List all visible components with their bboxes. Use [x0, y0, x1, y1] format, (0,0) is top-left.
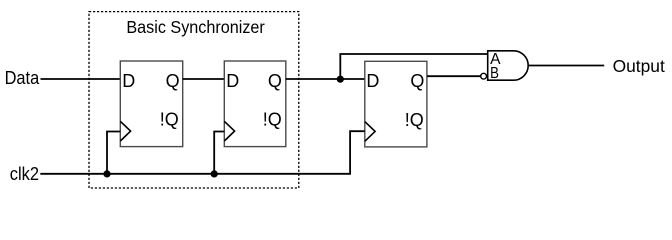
wire: FF1.Q to FF2.D [183, 78, 225, 80]
svg-text:D: D [366, 71, 379, 91]
D flip-flop U3 (third) [365, 61, 427, 147]
wire: Data to FF1.D [41, 78, 121, 80]
junction node on FF2.Q wire [337, 76, 344, 83]
svg-text:Data: Data [5, 68, 40, 88]
wire: clk2 up to FF1 clock [107, 132, 120, 174]
svg-text:D: D [226, 71, 239, 91]
inverter bubble on AND gate input B [481, 73, 487, 79]
wire: FF3.Q to AND gate input B bubble [427, 75, 481, 77]
svg-text:Output: Output [613, 56, 665, 76]
wire: clk2 up to FF2 clock [214, 132, 224, 174]
svg-text:clk2: clk2 [10, 163, 39, 184]
svg-text:!Q: !Q [263, 110, 282, 130]
wire: junction up and over to AND gate input A [340, 54, 487, 79]
D flip-flop U1 (first) [120, 61, 182, 147]
wire: FF2.Q to FF3.D [286, 78, 365, 80]
svg-text:Q: Q [166, 71, 180, 91]
wire: AND gate output [528, 65, 604, 67]
svg-text:!Q: !Q [160, 110, 179, 130]
junction node clk2 to FF2 [211, 170, 218, 177]
junction node clk2 to FF1 [103, 170, 110, 177]
svg-text:Basic Synchronizer: Basic Synchronizer [126, 17, 265, 37]
svg-text:B: B [490, 65, 499, 82]
D flip-flop U2 (second) [224, 61, 285, 147]
AND gate U4 [488, 51, 529, 80]
svg-text:Q: Q [410, 71, 424, 91]
dashed box: Basic Synchronizer boundary [89, 12, 299, 188]
svg-text:Q: Q [268, 71, 282, 91]
svg-text:!Q: !Q [405, 110, 424, 130]
svg-text:D: D [122, 71, 135, 91]
wire: clk2 horizontal line [40, 131, 365, 174]
